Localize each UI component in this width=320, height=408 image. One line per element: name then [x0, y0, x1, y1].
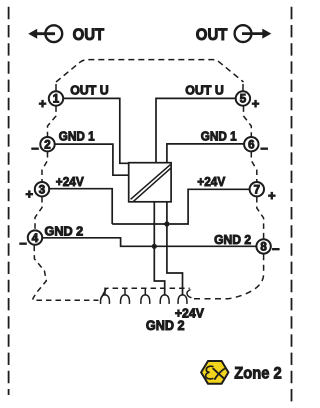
terminal 4	[19, 230, 42, 250]
OUT left arrow icon	[28, 25, 62, 42]
svg-text:OUT: OUT	[196, 25, 228, 44]
housing outline slant into contact row	[101, 288, 107, 299]
bottom bus contact 5 +24V	[178, 295, 187, 304]
wire terminal5 to isolator box top	[156, 98, 235, 162]
wire terminal1 to isolator box top-left	[64, 98, 129, 163]
housing outline bottom contact row line (dashed)	[107, 287, 190, 289]
wire terminal6 to isolator box top	[167, 144, 244, 163]
bottom bus contact 2	[121, 288, 130, 304]
svg-text:+24V: +24V	[197, 174, 225, 189]
svg-text:GND 1: GND 1	[59, 128, 95, 143]
svg-text:−: −	[260, 141, 268, 156]
terminal 7	[250, 182, 276, 203]
housing outline left foot below terminal 4 (dashed)	[33, 246, 99, 301]
housing outline below terminal 8 (dashed curve)	[194, 254, 264, 298]
svg-text:+: +	[252, 96, 260, 111]
terminal 2	[31, 137, 54, 156]
svg-text:OUT: OUT	[73, 25, 105, 44]
Ex ATEX symbol hexagon	[201, 361, 228, 384]
module housing outline top (dashed)	[56, 60, 244, 82]
housing outline terminal1-terminal2 (dashed)	[48, 106, 57, 136]
svg-text:3: 3	[39, 184, 45, 196]
svg-text:1: 1	[53, 94, 60, 106]
svg-text:GND 2: GND 2	[146, 318, 185, 333]
left zone boundary dashed line	[8, 7, 10, 395]
wire terminal2 to isolator box left	[55, 144, 129, 175]
terminal 3	[26, 182, 50, 202]
svg-text:2: 2	[44, 139, 50, 151]
svg-text:8: 8	[260, 242, 267, 254]
housing outline terminal7-terminal8 (dashed)	[257, 197, 264, 239]
svg-text:+: +	[26, 187, 34, 202]
svg-text:+24V: +24V	[56, 174, 84, 189]
svg-text:+: +	[39, 96, 47, 111]
svg-text:−: −	[19, 236, 27, 251]
terminal 1	[39, 91, 63, 111]
svg-text:+: +	[268, 188, 276, 203]
housing outline terminal2-terminal3 (dashed)	[42, 152, 48, 181]
terminal 5	[236, 91, 260, 111]
svg-text:7: 7	[254, 184, 260, 196]
junction dot GND2/box wire	[152, 244, 157, 249]
svg-text:Zone 2: Zone 2	[234, 364, 282, 382]
svg-text:6: 6	[248, 139, 254, 151]
svg-text:5: 5	[240, 94, 247, 106]
isolator box U1	[129, 163, 171, 202]
isolator box diagonal isolation double line	[131, 165, 171, 202]
bottom bus contact 4 GND2	[160, 295, 169, 304]
bottom bus contact 1	[101, 288, 110, 304]
housing outline hook at right of contact row	[187, 290, 192, 298]
svg-text:GND 1: GND 1	[201, 129, 237, 144]
bottom bus contact 3	[141, 288, 150, 304]
housing outline terminal3-terminal4 (dashed)	[35, 197, 42, 230]
wire terminal3 +24V to rail	[50, 189, 112, 224]
terminal 6	[244, 137, 268, 156]
housing outline terminal5-terminal6 (dashed)	[244, 106, 252, 136]
terminal 8	[256, 239, 280, 256]
housing outline stub above terminal 1	[55, 84, 57, 91]
housing outline stub above terminal 5	[242, 84, 244, 91]
svg-text:OUT U: OUT U	[185, 83, 224, 98]
right zone boundary dashed line	[291, 7, 293, 403]
wire GND2 terminal4 to terminal8	[43, 238, 256, 247]
svg-text:GND 2: GND 2	[214, 232, 251, 247]
wire isolator box bottom to +24V rail and contact 5	[167, 202, 183, 296]
wire isolator box bottom to GND2 and contact 4	[154, 202, 164, 296]
housing outline terminal6-terminal7 (dashed)	[251, 152, 256, 181]
svg-text:−: −	[272, 241, 280, 256]
svg-text:−: −	[31, 141, 39, 156]
OUT right arrow icon	[235, 25, 272, 42]
svg-text:4: 4	[32, 233, 39, 245]
junction dot +24V rail/box wire	[164, 221, 169, 226]
svg-text:GND 2: GND 2	[45, 223, 84, 238]
svg-text:OUT U: OUT U	[70, 83, 109, 98]
wire +24V rail	[112, 189, 249, 224]
